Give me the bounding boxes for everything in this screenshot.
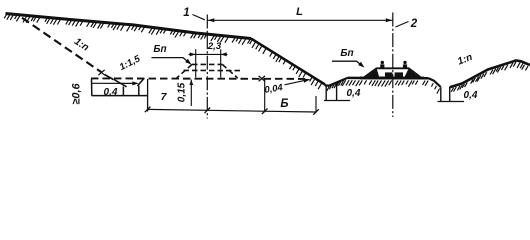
dashed prism mid line bbox=[184, 69, 241, 71]
dashed design slope 1:n bbox=[22, 18, 102, 73]
svg-text:0,15: 0,15 bbox=[177, 82, 188, 102]
leader arrow Bp right bbox=[332, 61, 363, 66]
ballast shading mid-right bbox=[395, 72, 403, 77]
left ditch bottom bbox=[92, 95, 149, 97]
hatch left of right ditch bbox=[431, 83, 439, 93]
vertical line for 0,15 bbox=[190, 80, 192, 107]
extension line right end of Б span bbox=[315, 96, 317, 113]
cut slope line bbox=[251, 39, 325, 85]
svg-text:≥0,6: ≥0,6 bbox=[71, 82, 83, 104]
bottom dimension line bbox=[148, 109, 316, 112]
svg-text:Бп: Бп bbox=[153, 44, 166, 55]
ballast prism outline bbox=[365, 68, 421, 77]
svg-text:0,4: 0,4 bbox=[104, 87, 118, 98]
svg-text:1: 1 bbox=[183, 7, 189, 19]
extension line at point Б bbox=[264, 79, 266, 113]
dashed prism top bbox=[192, 63, 222, 65]
cross mark at slope/ditch break point bbox=[98, 70, 104, 75]
extension line left of 2,3 bbox=[195, 49, 197, 77]
leader for label 2 bbox=[396, 22, 409, 28]
left ditch slope right bbox=[137, 79, 143, 86]
right slope and natural ground bbox=[450, 61, 530, 88]
extension line at ditch edge bbox=[147, 79, 149, 112]
dashed prism left slope bbox=[177, 64, 193, 78]
dashed prism right slope bbox=[222, 64, 238, 78]
rail right bbox=[403, 64, 407, 68]
berm and prism base line bbox=[348, 77, 429, 80]
extension line right of 2,3 bbox=[220, 49, 222, 77]
right ditch tray bottom bbox=[438, 101, 465, 103]
prism base emphasis bbox=[360, 76, 424, 79]
svg-text:Бп: Бп bbox=[340, 48, 353, 59]
leader for label 1 bbox=[193, 15, 205, 20]
ballast shading mid-left bbox=[385, 72, 393, 77]
right ditch left slope bbox=[429, 78, 441, 87]
hatching under right slope bbox=[451, 62, 528, 92]
right ditch tray left wall bbox=[440, 87, 442, 101]
left ditch inner tray left wall bbox=[122, 86, 124, 95]
middle ditch tray bottom bbox=[324, 100, 350, 102]
dashed slope continuation to ditch bbox=[105, 75, 114, 80]
hatching on cut slope face bbox=[250, 40, 322, 90]
left ditch bottom of cut bbox=[325, 85, 329, 86]
slope direction arrow bbox=[285, 80, 308, 85]
dashed subgrade line bbox=[91, 77, 305, 80]
cross mark on subgrade line at point Б bbox=[259, 76, 265, 81]
svg-text:L: L bbox=[296, 6, 303, 18]
dimension line L bbox=[207, 19, 392, 21]
dimension line 0,4 (left ditch) bbox=[92, 82, 137, 84]
svg-text:0,4: 0,4 bbox=[347, 88, 361, 99]
hatching under berm/base bbox=[342, 80, 428, 87]
rail left bbox=[380, 64, 384, 68]
natural ground surface (left) bbox=[6, 14, 252, 39]
svg-text:2,3: 2,3 bbox=[207, 41, 222, 52]
left ditch left wall bbox=[91, 79, 93, 96]
svg-text:0,4: 0,4 bbox=[464, 90, 478, 101]
leader arrow Bp left bbox=[152, 58, 190, 64]
right ditch tray right wall bbox=[449, 87, 451, 101]
ballast shading left bbox=[366, 69, 379, 77]
left ditch slope left bbox=[114, 79, 127, 86]
ballast shading right bbox=[405, 69, 419, 77]
left ditch inner tray right wall bbox=[138, 86, 140, 96]
middle ditch tray right wall bbox=[336, 83, 338, 101]
middle ditch rising slope bbox=[329, 78, 348, 86]
axis line of existing track bbox=[392, 13, 394, 118]
axis line of planned track bbox=[206, 15, 208, 119]
middle ditch tray left wall bbox=[325, 86, 327, 101]
svg-text:Б: Б bbox=[280, 98, 288, 110]
hatching under left ground surface bbox=[4, 14, 251, 45]
svg-text:2: 2 bbox=[410, 18, 418, 30]
hatch on middle ditch slope bbox=[327, 80, 344, 91]
dimension line 2,3 bbox=[189, 53, 228, 55]
